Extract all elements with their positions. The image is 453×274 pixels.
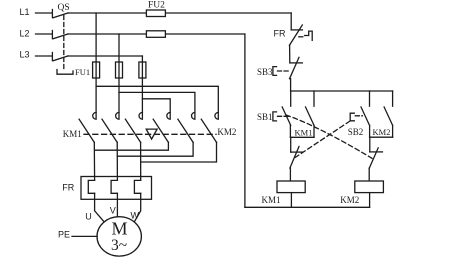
node L3: [20, 50, 53, 60]
svg-text:W: W: [131, 211, 140, 221]
wire control L1 down: [290, 13, 292, 30]
pushbutton SB2 (reverse, NO): [348, 91, 370, 137]
fuse FU2: [146, 1, 165, 38]
contactor KM2 main contact pole 3: [201, 112, 218, 142]
switch QS: [52, 3, 73, 74]
thermal relay FR heaters: [62, 177, 151, 200]
coil KM1: [262, 181, 306, 207]
wire SB3 to bus: [290, 79, 291, 91]
node L1: [20, 7, 53, 17]
svg-text:3~: 3~: [111, 237, 127, 254]
svg-text:M: M: [112, 219, 128, 239]
svg-text:L1: L1: [20, 7, 30, 17]
wire crossover phase B to KM2 pole 2: [119, 92, 195, 112]
fuse FU1: [75, 62, 146, 78]
contactor KM1 main contact pole 2: [102, 112, 119, 142]
svg-text:FR: FR: [274, 29, 286, 39]
svg-text:QS: QS: [58, 3, 70, 13]
contactor KM1 main contact pole 3: [125, 112, 142, 142]
wire crossover phase A to KM2 pole 3: [96, 86, 218, 112]
thermal relay FR NC contact: [274, 25, 313, 45]
contact KM2 aux NO (seal-in): [370, 91, 393, 137]
interlock dashed SB2 to KM1-branch NC: [295, 121, 350, 157]
wire phase A drop: [95, 13, 97, 112]
svg-text:U: U: [85, 212, 92, 222]
wire control bus: [291, 90, 393, 92]
wire crossover phase C to KM2 pole 1: [142, 99, 170, 113]
node PE: [58, 230, 97, 240]
svg-text:L2: L2: [20, 29, 30, 39]
contact KM1 NC interlock (branch 2): [369, 137, 382, 181]
motor M 3~: [97, 217, 141, 256]
wire phase B drop: [118, 34, 120, 112]
svg-text:L3: L3: [20, 50, 30, 60]
svg-text:FU1: FU1: [75, 67, 90, 77]
wire FU2b drop (control return rail): [244, 34, 246, 207]
mechanical interlock triangle: [146, 129, 157, 139]
node L2: [20, 29, 53, 39]
wire KM1 pole bottoms to FR: [93, 142, 95, 180]
wire control return: [245, 206, 370, 208]
wire KM2 pole1 join pair: [95, 142, 169, 150]
svg-text:SB1: SB1: [257, 112, 273, 122]
svg-text:SB3: SB3: [257, 67, 273, 77]
wire FR to SB3: [289, 45, 291, 63]
wire KM2 pole3 join pair: [141, 142, 217, 162]
svg-text:PE: PE: [58, 230, 70, 240]
contactor KM1 main contact pole 1: [79, 112, 96, 142]
svg-text:SB2: SB2: [348, 127, 364, 137]
wire phase C drop: [141, 56, 143, 112]
svg-text:V: V: [110, 206, 116, 216]
svg-text:KM1: KM1: [295, 127, 313, 137]
mechanical linkage dashed KM1-KM2: [84, 133, 216, 135]
wire L2 out: [68, 33, 245, 35]
contact KM1 aux NO (seal-in): [290, 91, 314, 137]
pushbutton SB1 (forward, NO): [257, 91, 291, 125]
wire FR to motor V: [116, 193, 118, 216]
svg-text:FR: FR: [62, 183, 74, 193]
svg-text:KM1: KM1: [63, 129, 82, 139]
svg-text:KM1: KM1: [262, 195, 281, 205]
wire FR to motor W: [134, 193, 141, 222]
contactor KM2 main contact pole 2: [178, 112, 195, 142]
wire FR to motor U: [95, 193, 105, 222]
svg-text:KM2: KM2: [373, 127, 391, 137]
svg-text:FU2: FU2: [148, 1, 165, 11]
svg-text:KM2: KM2: [340, 195, 359, 205]
interlock dashed SB1 to KM2-branch NC: [286, 115, 372, 158]
coil KM2: [340, 181, 383, 207]
wire L1 out: [68, 12, 291, 14]
wire L3 out: [68, 55, 142, 57]
pushbutton SB3 (stop, NC): [257, 57, 302, 78]
contact KM2 NC interlock (branch 1): [290, 137, 302, 181]
svg-text:KM2: KM2: [217, 127, 236, 137]
contactor KM2 main contact pole 1: [153, 112, 170, 142]
wire KM2 pole2 join pair: [117, 142, 193, 156]
